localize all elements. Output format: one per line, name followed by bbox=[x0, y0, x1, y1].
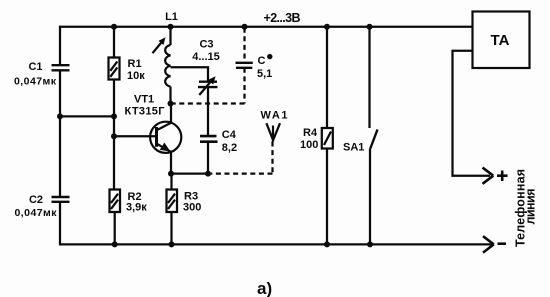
node junction SA1 top rail bbox=[367, 24, 373, 30]
node junction SA1 bottom rail bbox=[367, 241, 373, 247]
svg-text:WA1: WA1 bbox=[261, 110, 288, 122]
svg-text:8,2: 8,2 bbox=[222, 142, 237, 154]
svg-text:а): а) bbox=[257, 279, 272, 297]
wire left rail middle segment bbox=[59, 70, 61, 197]
node junction R1 column / bias wire bbox=[111, 113, 117, 119]
svg-text:R1: R1 bbox=[128, 58, 142, 70]
svg-text:C: C bbox=[258, 55, 266, 67]
node junction left rail / bias wire bbox=[57, 113, 63, 119]
capacitor C1 bbox=[14, 61, 70, 88]
node junction R4 top rail bbox=[324, 24, 330, 30]
svg-text:линия: линия bbox=[524, 189, 538, 225]
svg-text:300: 300 bbox=[183, 202, 201, 214]
svg-text:3,9к: 3,9к bbox=[126, 202, 147, 214]
node junction C4 / emitter line bbox=[205, 171, 211, 177]
switch SA1 bbox=[343, 27, 378, 245]
wire bias node horizontal (left rail to R1 column) bbox=[60, 115, 114, 117]
inductor L1 bbox=[165, 11, 178, 104]
svg-text:R4: R4 bbox=[303, 127, 318, 139]
wire R1 bottom to R2 top column bbox=[113, 80, 115, 190]
wire R3 bottom lead bbox=[170, 212, 172, 244]
svg-text:C3: C3 bbox=[199, 39, 213, 51]
wire left rail lower segment bbox=[59, 202, 61, 246]
plus arrowhead bbox=[483, 168, 494, 184]
capacitor C2 bbox=[15, 194, 70, 219]
wire bottom rail bbox=[59, 243, 493, 245]
resistor R2 bbox=[110, 190, 148, 214]
capacitor C3 (trimmer) bbox=[192, 39, 220, 96]
wire C4 bottom lead bbox=[207, 142, 209, 174]
wire emitter down bbox=[170, 152, 172, 174]
svg-text:ТА: ТА bbox=[490, 32, 509, 49]
node junction R2 bottom rail bbox=[112, 241, 118, 247]
node junction R3 bottom rail bbox=[169, 241, 175, 247]
resistor R4 bbox=[300, 27, 333, 151]
wire dashed antenna lead down bbox=[271, 142, 273, 174]
svg-text:10к: 10к bbox=[127, 70, 145, 82]
svg-text:+2...3В: +2...3В bbox=[264, 11, 301, 25]
wire TA to plus terminal bbox=[453, 51, 491, 176]
wire dashed C* bottom to collector node bbox=[172, 102, 245, 104]
svg-text:0,047мк: 0,047мк bbox=[14, 76, 57, 88]
node minus terminal label bbox=[498, 242, 507, 245]
minus arrowhead bbox=[483, 236, 494, 252]
svg-text:КТ315Г: КТ315Г bbox=[125, 106, 166, 118]
svg-text:VT1: VT1 bbox=[134, 94, 154, 106]
node junction R4 bottom rail bbox=[324, 241, 330, 247]
node plus terminal label bbox=[497, 171, 508, 182]
wire C3 bottom to C4 top bbox=[207, 87, 209, 136]
resistor R3 bbox=[167, 174, 202, 214]
node junction base wire bbox=[111, 133, 117, 139]
L1 adjustment arrow bbox=[153, 37, 166, 53]
telephone set box TA bbox=[473, 12, 530, 69]
svg-text:SA1: SA1 bbox=[343, 142, 364, 154]
capacitor C4 bbox=[200, 129, 237, 154]
resistor R1 bbox=[109, 27, 146, 82]
capacitor C* bbox=[236, 28, 273, 104]
node junction L1 top rail bbox=[168, 24, 174, 30]
wire emitter node to C4 node bbox=[171, 172, 208, 174]
antenna WA1 bbox=[261, 110, 288, 142]
node junction R1 top rail bbox=[111, 24, 117, 30]
node junction emitter / R3 / C4 line bbox=[168, 171, 174, 177]
wire collector to L1 bottom bbox=[170, 104, 172, 123]
svg-text:L1: L1 bbox=[165, 11, 178, 23]
wire dashed antenna to emitter line bbox=[211, 172, 273, 174]
svg-text:100: 100 bbox=[300, 139, 318, 151]
wire R4 bottom lead bbox=[326, 149, 328, 245]
svg-text:5,1: 5,1 bbox=[257, 68, 272, 80]
transistor VT1 bbox=[125, 94, 182, 153]
svg-text:C1: C1 bbox=[28, 61, 42, 73]
wire left rail upper segment bbox=[59, 26, 61, 65]
svg-text:4...15: 4...15 bbox=[192, 51, 220, 63]
wire L1 tap to C3 bbox=[171, 67, 209, 81]
node junction C* top rail bbox=[242, 24, 248, 30]
wire top rail bbox=[59, 26, 473, 28]
svg-text:C4: C4 bbox=[222, 129, 237, 141]
node junction collector / L1 / shield dashed bbox=[168, 101, 174, 107]
wire base bbox=[114, 135, 156, 137]
wire R2 bottom lead bbox=[114, 212, 116, 244]
svg-text:C2: C2 bbox=[29, 194, 43, 206]
svg-text:0,047мк: 0,047мк bbox=[15, 207, 58, 219]
node telephone line label bbox=[514, 169, 538, 247]
